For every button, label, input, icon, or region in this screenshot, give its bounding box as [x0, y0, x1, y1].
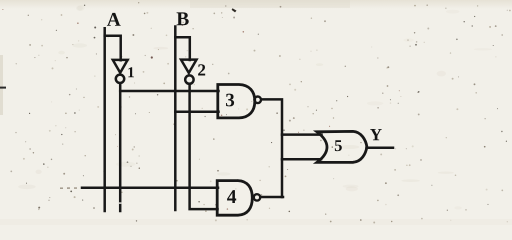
label 2: [198, 64, 205, 75]
wire: input line A vertical: [103, 28, 106, 211]
label A: [107, 13, 121, 26]
wire: gate 4 output to runner: [261, 196, 284, 199]
wire: branch from A to inverter 1: [105, 36, 121, 61]
gate 4 bubble: [254, 194, 260, 200]
label 1: [128, 67, 134, 77]
inverter 2 bubble: [185, 75, 193, 83]
label Y: [370, 129, 382, 140]
scan gap on A-bar line: [119, 202, 121, 204]
inverter 2 triangle: [181, 60, 197, 73]
gate 4 NAND body: [217, 181, 252, 216]
label 4: [227, 190, 236, 203]
wire: inverter 1 output vertical (A-bar): [119, 84, 122, 211]
wire: gate 3 output to vertical runner: [261, 99, 282, 197]
label B: [177, 12, 189, 25]
wire: runner to gate 5 lower input: [282, 158, 321, 161]
wire: long horizontal to gate 4 upper input: [82, 187, 218, 190]
gate 3 bubble: [254, 97, 261, 104]
wire: inverter 2 output vertical (B-bar) with corner to gate 4 lower input: [190, 84, 218, 209]
stray mark at left edge: [0, 87, 6, 89]
wire: gate 5 output to Y: [367, 146, 394, 149]
label 3: [226, 94, 234, 107]
faint fade-in of gate 4 wire: [60, 187, 80, 189]
label 5: [335, 140, 342, 151]
inverter 1 bubble: [116, 75, 124, 83]
gate 5 OR body: [317, 131, 367, 162]
inverter 1 triangle: [113, 60, 128, 73]
wire: B to gate 3 lower input: [175, 110, 218, 113]
wire: branch from B to inverter 2: [175, 37, 190, 60]
wire: runner to gate 5 upper input: [282, 133, 322, 136]
gate 3 NAND body: [218, 85, 255, 118]
wire: A-bar to gate 3 upper input: [120, 90, 218, 93]
wire: input line B vertical: [174, 27, 177, 211]
ink blob top-center: [232, 8, 237, 12]
